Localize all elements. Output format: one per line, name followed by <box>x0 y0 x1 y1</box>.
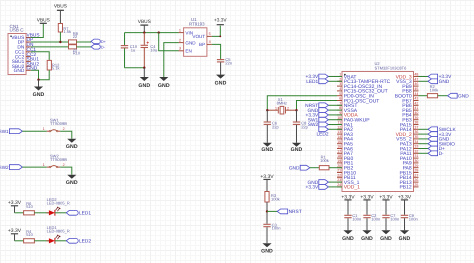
switch SW1 TTS009B <box>47 130 50 132</box>
svg-text:D-: D- <box>439 151 444 157</box>
svg-text:R10: R10 <box>73 51 81 56</box>
svg-text:5.1k: 5.1k <box>52 66 60 71</box>
svg-text:23: 23 <box>337 178 341 182</box>
svg-text:LED1: LED1 <box>79 211 91 217</box>
ground C10/C4 <box>143 68 145 77</box>
resistor R10 22 <box>69 45 77 49</box>
junction NRST <box>266 210 268 212</box>
wire LED2 to net port <box>55 212 66 214</box>
svg-text:32: 32 <box>414 149 418 153</box>
svg-text:30: 30 <box>414 159 418 163</box>
U2 pin 39 PB3 <box>414 119 419 121</box>
svg-text:3: 3 <box>179 47 181 51</box>
CN1 pin DP <box>26 41 31 43</box>
U2 pin 38 PA15 <box>414 124 419 126</box>
power flag +3.3V at C1 <box>344 199 351 201</box>
U2 pin 6 PD1-OSC_OUT <box>337 100 342 102</box>
svg-text:100k: 100k <box>271 197 280 202</box>
svg-text:29: 29 <box>414 164 418 168</box>
svg-text:100k: 100k <box>320 158 329 163</box>
svg-text:LED-0805_R: LED-0805_R <box>47 201 70 206</box>
svg-text:100n: 100n <box>352 217 361 222</box>
svg-text:GND: GND <box>261 147 273 153</box>
svg-text:LED2: LED2 <box>79 239 91 245</box>
wire LED1 to net port <box>55 240 66 242</box>
svg-text:GND: GND <box>215 81 227 87</box>
junction X1 right <box>295 109 297 111</box>
U2 pin 47 VSS_3 <box>414 80 419 82</box>
CN1 pin DN <box>26 46 31 48</box>
capacitor C7 100n <box>382 214 389 216</box>
ground C2 <box>362 230 371 234</box>
wire junction to NRST flag <box>267 210 277 212</box>
wire R3 to junction <box>266 202 268 224</box>
wire VBUS rail to VIN <box>125 32 179 34</box>
svg-text:1: 1 <box>179 28 181 32</box>
svg-text:+3.3V: +3.3V <box>8 228 22 234</box>
U2 pin 25 PB12 <box>414 186 419 188</box>
svg-text:GND: GND <box>138 83 150 89</box>
svg-text:GND: GND <box>289 165 300 171</box>
U2 pin 46 PB9 <box>414 85 419 87</box>
wire R2 to GND flag <box>438 95 448 97</box>
svg-text:3: 3 <box>339 82 341 86</box>
U2 pin 15 PA5 <box>337 143 342 145</box>
svg-text:GND: GND <box>14 68 25 74</box>
svg-text:39: 39 <box>414 116 418 120</box>
capacitor C9 100n <box>401 214 408 216</box>
svg-text:22n: 22n <box>225 61 232 66</box>
regulator U1 RT9193 body <box>184 28 207 57</box>
net flag GND from U2 right <box>419 80 429 82</box>
svg-text:1u: 1u <box>131 47 135 52</box>
wire X1 left to PD0 <box>267 96 337 111</box>
svg-text:D-: D- <box>101 46 106 50</box>
U2 pin 18 PB0 <box>337 157 342 159</box>
svg-text:17: 17 <box>337 149 341 153</box>
net flag +3.3V from U2 right <box>419 76 429 78</box>
wire EN branch <box>159 33 179 51</box>
U1 pin 2 GND <box>179 42 184 44</box>
svg-text:LED-0805_R: LED-0805_R <box>47 229 70 234</box>
U2 pin 34 PA13 <box>414 143 419 145</box>
CN1 pin CC2 <box>26 56 31 58</box>
svg-text:100n: 100n <box>390 217 399 222</box>
svg-text:SW2: SW2 <box>0 165 9 170</box>
wire switch to ground <box>60 131 72 139</box>
svg-text:1: 1 <box>275 106 277 110</box>
svg-text:USB C: USB C <box>10 27 25 32</box>
power flag +3.3V at R6 <box>11 205 18 207</box>
wire R8 to D+ port <box>77 41 92 43</box>
net flag +3.3V to U2 <box>328 76 342 78</box>
capacitor C6 22p <box>266 110 268 121</box>
svg-text:40: 40 <box>414 111 418 115</box>
U2 pin 11 PA1 <box>337 124 342 126</box>
U1 pin 1 VIN <box>179 32 184 34</box>
resistor R4 510 <box>24 239 35 243</box>
resistor R6 510 <box>24 211 35 215</box>
svg-text:GND: GND <box>33 92 45 98</box>
wire VOUT to +3.3V <box>212 26 220 37</box>
svg-text:+3.3V: +3.3V <box>379 194 393 200</box>
svg-text:VBUS: VBUS <box>138 19 151 25</box>
wire cap bottoms <box>125 67 145 69</box>
svg-text:8MHz: 8MHz <box>277 101 287 106</box>
power flag +3.3V at C2 <box>363 199 370 201</box>
wire to R6 <box>15 212 24 214</box>
U2 pin 3 PC14-OSC32_IN <box>337 85 342 87</box>
U2 pin 2 PC13-TAMPER-RTC <box>337 80 342 82</box>
net flag SW2 <box>9 165 22 170</box>
wire switch to ground <box>60 167 72 175</box>
resistor R3 100k <box>265 192 269 203</box>
svg-text:GND: GND <box>439 79 450 85</box>
svg-text:GND: GND <box>361 236 373 242</box>
svg-text:47: 47 <box>414 77 418 81</box>
junction X1 left <box>266 109 268 111</box>
svg-text:1: 1 <box>43 163 45 167</box>
ground C3 <box>262 243 271 247</box>
U2 pin 17 PA7 <box>337 152 342 154</box>
wire DN <box>31 46 69 48</box>
U1 pin 5 VOUT <box>207 35 212 37</box>
svg-text:34: 34 <box>414 140 418 144</box>
U1 pin 3 EN <box>179 50 184 52</box>
net flag D- from U2 right <box>419 152 429 154</box>
U2 pin 45 PB8 <box>414 90 419 92</box>
U2 pin 44 BOOT0 <box>414 95 419 97</box>
svg-text:100k: 100k <box>430 88 439 93</box>
net flag SW2 to U2 <box>328 124 342 126</box>
net flag +3.3V to U2 bottom <box>328 186 342 188</box>
svg-text:GND: GND <box>399 236 411 242</box>
svg-text:SW1: SW1 <box>0 129 9 134</box>
svg-text:+3.3V: +3.3V <box>8 200 22 206</box>
net flag +3.3V to U2 <box>328 114 342 116</box>
wire SW1 flag to switch <box>22 130 46 132</box>
svg-text:15: 15 <box>337 140 341 144</box>
svg-text:6: 6 <box>339 97 341 101</box>
svg-text:25: 25 <box>414 183 418 187</box>
svg-text:GND: GND <box>261 248 273 254</box>
net flag NRST <box>277 209 288 214</box>
capacitor C3 100n <box>263 223 270 225</box>
svg-text:12: 12 <box>337 125 341 129</box>
svg-text:21: 21 <box>337 169 341 173</box>
svg-text:LED1: LED1 <box>306 79 318 85</box>
U2 pin 37 PA14 <box>414 128 419 130</box>
svg-text:+3.3V: +3.3V <box>398 194 412 200</box>
net flag GND at BOOT0 <box>448 93 458 98</box>
U2 pin 28 PB15 <box>414 172 419 174</box>
svg-text:GND: GND <box>380 236 392 242</box>
svg-text:PB12: PB12 <box>399 185 411 191</box>
wire R6 to LED2 <box>34 212 49 214</box>
wire GND flag to R1 <box>310 167 320 169</box>
svg-text:NRST: NRST <box>289 209 302 215</box>
wire R4 to LED1 <box>34 240 49 242</box>
net flag LED1 to U2 <box>328 80 342 82</box>
svg-text:510: 510 <box>26 204 33 209</box>
wire BP to C5 <box>212 44 221 59</box>
svg-text:VBUS: VBUS <box>37 18 50 24</box>
svg-text:46: 46 <box>414 82 418 86</box>
svg-text:44: 44 <box>414 92 418 96</box>
wire U1 GND to ground <box>164 43 179 77</box>
U2 pin 12 PA2 <box>337 128 342 130</box>
capacitor C4 10u polarized <box>143 33 145 45</box>
svg-text:100n: 100n <box>409 217 418 222</box>
svg-text:35: 35 <box>414 135 418 139</box>
U2 pin 10 PA0-WKUP <box>337 119 342 121</box>
U2 pin 29 PA8 <box>414 167 419 169</box>
svg-text:22p: 22p <box>301 124 308 129</box>
LED LED2 LED-0805_R <box>47 212 49 214</box>
ground C6 <box>263 143 272 147</box>
U2 pin 40 PB4 <box>414 114 419 116</box>
svg-text:2: 2 <box>63 163 65 167</box>
U2 pin 19 PB1 <box>337 162 342 164</box>
U2 pin 35 VSS_2 <box>414 138 419 140</box>
wire X1 right to PD1 <box>297 101 338 111</box>
resistor R12 5.1k <box>47 60 51 70</box>
svg-text:TTS009B: TTS009B <box>50 157 67 162</box>
svg-text:36: 36 <box>414 130 418 134</box>
net flag NRST to U2 <box>328 104 342 106</box>
capacitor C2 100n <box>363 214 370 216</box>
U2 pin 9 VDDA <box>337 114 342 116</box>
U2 pin 24 VDD_1 <box>337 186 342 188</box>
wire VBUS to R7 <box>59 11 61 24</box>
power flag +3.3V at C9 <box>401 199 408 201</box>
ground C5 <box>216 75 225 79</box>
junction R7/DP <box>59 41 61 43</box>
U2 pin 41 PB5 <box>414 109 419 111</box>
U2 pin 33 PA12 <box>414 148 419 150</box>
svg-text:48: 48 <box>414 73 418 77</box>
U2 pin 36 VDD_2 <box>414 133 419 135</box>
svg-text:27: 27 <box>414 173 418 177</box>
resistor R2 100k <box>427 94 437 98</box>
svg-text:GND: GND <box>66 144 78 150</box>
svg-text:GND: GND <box>185 40 196 45</box>
svg-text:19: 19 <box>337 159 341 163</box>
wire SW2 flag to switch <box>22 166 46 168</box>
U2 pin 8 VSSA <box>337 109 342 111</box>
svg-text:38: 38 <box>414 121 418 125</box>
capacitor C5 22n <box>217 59 224 61</box>
net flag D+ from U2 right <box>419 148 429 150</box>
svg-text:33: 33 <box>414 145 418 149</box>
U2 pin 22 PB11 <box>337 176 342 178</box>
net flag GND at R1 <box>300 165 310 170</box>
svg-text:SW2: SW2 <box>308 122 319 128</box>
svg-text:22: 22 <box>337 173 341 177</box>
ground C7 <box>381 230 390 234</box>
U2 pin 16 PA6 <box>337 148 342 150</box>
crystal X1 8MHz <box>267 109 278 111</box>
svg-text:+3.3V: +3.3V <box>214 17 227 23</box>
junction VBUS/C4 <box>143 31 145 33</box>
svg-text:45: 45 <box>414 87 418 91</box>
svg-text:VDD_1: VDD_1 <box>344 185 360 191</box>
U2 pin 5 PD0-OSC_IN <box>337 95 342 97</box>
svg-text:2: 2 <box>287 106 289 110</box>
wire R12 to ground rail <box>39 70 50 80</box>
svg-text:GND: GND <box>291 147 303 153</box>
CN1 pin CC1 <box>26 51 31 53</box>
wire R1 to PB2 <box>329 167 342 169</box>
junction EN branch <box>158 31 160 33</box>
svg-text:GND: GND <box>158 83 170 89</box>
ground U1 GND pin <box>159 77 168 81</box>
wire DP <box>31 41 69 43</box>
MCU U2 STM32F103C8T6 body <box>342 72 414 192</box>
svg-text:2: 2 <box>179 38 181 42</box>
net flag GND to U2 <box>328 109 342 111</box>
wire R7 to DP <box>59 32 61 42</box>
svg-text:42: 42 <box>414 101 418 105</box>
ground C9 <box>400 230 409 234</box>
power flag VBUS above R7 <box>57 9 64 11</box>
net port D- <box>91 45 100 50</box>
power flag VBUS at CN1 <box>40 22 47 24</box>
wire CN1 GND down <box>31 70 39 79</box>
resistor R8 22 <box>69 40 77 44</box>
U2 pin 43 PB7 <box>414 100 419 102</box>
svg-text:4: 4 <box>209 40 211 44</box>
wire VBUS pin to flag <box>31 24 44 38</box>
connector CN1 USB C body <box>8 34 26 75</box>
svg-text:37: 37 <box>414 125 418 129</box>
svg-text:22: 22 <box>73 34 78 39</box>
svg-text:5: 5 <box>339 92 341 96</box>
capacitor C1 100n <box>344 214 351 216</box>
junction C4 bottom <box>143 67 145 69</box>
capacitor C8 22p <box>296 110 298 121</box>
wire BOOT0 to R2 <box>419 95 428 97</box>
net flag SW1 <box>9 129 22 134</box>
net port LED2 <box>66 238 78 243</box>
svg-text:+3.3V: +3.3V <box>260 174 274 180</box>
svg-text:510: 510 <box>26 232 33 237</box>
CN1 pin SBU2 <box>26 65 31 67</box>
wire to R4 <box>15 240 24 242</box>
CN1 pin GND <box>26 69 31 71</box>
switch SW2 TTS009B <box>47 166 50 168</box>
power flag +3.3V at C7 <box>382 199 389 201</box>
svg-text:D+: D+ <box>101 40 107 44</box>
svg-text:18: 18 <box>337 154 341 158</box>
CN1 pin SBU1 <box>26 60 31 62</box>
U2 pin 4 PC15-OSC32_OUT <box>337 90 342 92</box>
svg-text:31: 31 <box>414 154 418 158</box>
U2 pin 26 PB13 <box>414 181 419 183</box>
svg-text:VOUT: VOUT <box>192 34 205 39</box>
svg-text:1.5k: 1.5k <box>63 29 71 34</box>
svg-text:VBUS: VBUS <box>54 4 67 10</box>
wire R10 to D- port <box>77 46 92 48</box>
U2 pin 27 PB14 <box>414 176 419 178</box>
resistor R7 1.5k <box>58 24 62 33</box>
svg-text:STM32F103C8T6: STM32F103C8T6 <box>375 66 408 71</box>
net flag LED2 to U2 (text below) <box>328 128 342 130</box>
svg-text:26: 26 <box>414 178 418 182</box>
net port D+ <box>91 39 100 44</box>
svg-text:22p: 22p <box>272 124 279 129</box>
ground C8 <box>292 143 301 147</box>
svg-text:+3.3V: +3.3V <box>360 194 374 200</box>
svg-text:GND: GND <box>342 236 354 242</box>
U2 pin 20 PB2 <box>337 167 342 169</box>
U2 pin 7 NRST <box>337 104 342 106</box>
U1 pin 4 BP <box>207 43 212 45</box>
svg-text:10u: 10u <box>150 47 157 52</box>
svg-text:41: 41 <box>414 106 418 110</box>
U2 pin 23 VSS_1 <box>337 181 342 183</box>
U2 pin 31 PA10 <box>414 157 419 159</box>
svg-text:13: 13 <box>337 130 341 134</box>
net flag GND to U2 bottom <box>328 181 342 183</box>
power flag +3.3V at VOUT <box>217 24 224 26</box>
ground SW2 <box>67 175 76 179</box>
svg-text:4: 4 <box>339 87 341 91</box>
U2 pin 14 PA4 <box>337 138 342 140</box>
ground CN1 <box>34 87 43 91</box>
net port LED1 <box>66 210 78 215</box>
net flag SWDIO from U2 right <box>419 143 429 145</box>
ground SW1 <box>67 139 76 143</box>
svg-text:EN: EN <box>185 49 191 54</box>
svg-text:+3.3V: +3.3V <box>341 194 355 200</box>
svg-text:RT9193: RT9193 <box>189 21 205 26</box>
LED LED1 LED-0805_R <box>47 240 49 242</box>
svg-text:GND: GND <box>458 93 469 99</box>
net flag SWCLK from U2 right <box>419 128 429 130</box>
wire CC1 to R12 <box>31 52 49 61</box>
svg-text:14: 14 <box>337 135 341 139</box>
svg-text:28: 28 <box>414 169 418 173</box>
svg-text:100n: 100n <box>371 217 380 222</box>
svg-text:LED2: LED2 <box>317 131 329 137</box>
power flag +3.3V at R3 <box>263 178 270 180</box>
net flag SW1 to U2 <box>328 119 342 121</box>
wire to ground symbol <box>38 80 40 87</box>
U2 pin 1 VBAT <box>337 76 342 78</box>
power flag VBUS mid <box>140 24 148 26</box>
svg-text:GND: GND <box>66 180 78 186</box>
U2 pin 30 PA9 <box>414 162 419 164</box>
svg-text:2: 2 <box>63 127 65 131</box>
CN1 pin VBUS <box>26 37 31 39</box>
power flag +3.3V at R4 <box>11 233 18 235</box>
net flag +3.3V from U2 right <box>419 133 429 135</box>
svg-text:+3.3V: +3.3V <box>306 185 319 191</box>
svg-text:1: 1 <box>43 127 45 131</box>
svg-text:5: 5 <box>209 32 211 36</box>
net flag GND from U2 right <box>419 138 429 140</box>
U2 pin 48 VDD_3 <box>414 76 419 78</box>
U2 pin 13 PA3 <box>337 133 342 135</box>
U2 pin 42 PB6 <box>414 104 419 106</box>
U2 pin 32 PA11 <box>414 152 419 154</box>
capacitor C10 1u <box>124 33 126 46</box>
svg-text:100n: 100n <box>272 226 281 231</box>
U2 pin 21 PB10 <box>337 172 342 174</box>
resistor R1 100k <box>319 166 329 170</box>
svg-text:BP: BP <box>199 42 205 47</box>
